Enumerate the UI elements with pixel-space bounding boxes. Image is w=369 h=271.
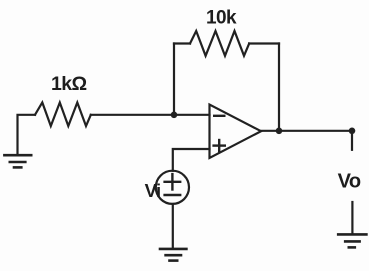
wire	[351, 202, 353, 234]
wire	[174, 42, 190, 44]
node junction	[276, 128, 283, 135]
source Vi	[156, 171, 189, 204]
wire	[91, 114, 210, 116]
resistor R1	[35, 103, 91, 127]
ground	[160, 249, 186, 261]
op-amp U1	[210, 105, 262, 159]
ground	[338, 234, 366, 247]
wire	[18, 115, 36, 154]
svg-text:1kΩ: 1kΩ	[51, 73, 87, 95]
node Vo	[349, 128, 356, 135]
wire	[261, 130, 352, 132]
resistor R2	[190, 31, 249, 56]
node junction	[171, 112, 178, 119]
svg-text:10k: 10k	[206, 7, 237, 28]
wire	[249, 42, 279, 44]
wire	[172, 204, 174, 248]
wire	[278, 44, 280, 131]
wire	[173, 149, 210, 171]
svg-text:Vi: Vi	[145, 180, 161, 201]
ground	[4, 155, 31, 167]
wire	[351, 131, 353, 150]
svg-text:Vo: Vo	[338, 171, 361, 193]
wire	[173, 44, 175, 115]
